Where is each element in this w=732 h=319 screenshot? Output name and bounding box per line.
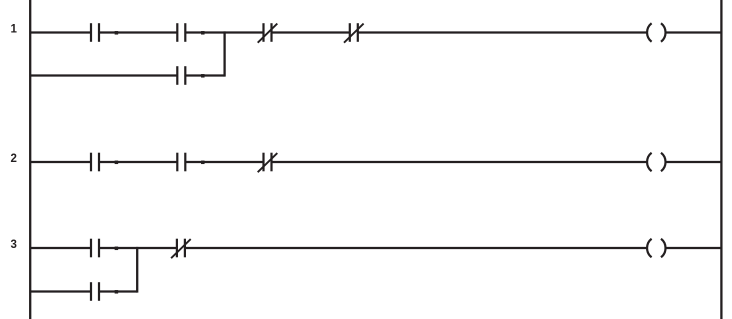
svg-text:1: 1	[10, 23, 17, 35]
svg-text:3: 3	[10, 239, 16, 251]
svg-text:2: 2	[10, 153, 16, 165]
